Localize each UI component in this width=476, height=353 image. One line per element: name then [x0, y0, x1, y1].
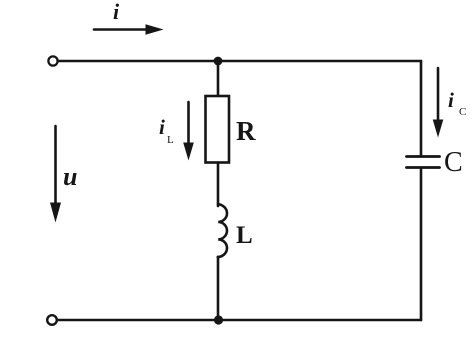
wire right lower — [420, 168, 423, 321]
label iC — [448, 88, 466, 118]
terminal bottom-left — [47, 315, 57, 325]
inductor L — [218, 204, 227, 257]
wire bottom — [58, 319, 421, 322]
svg-text:i: i — [113, 0, 120, 24]
terminal top-left — [48, 56, 57, 65]
svg-text:i: i — [159, 115, 165, 139]
svg-text:C: C — [444, 147, 463, 178]
node top junction — [214, 57, 223, 66]
current arrow iC — [433, 68, 444, 138]
label iL — [159, 115, 174, 146]
current arrow i — [94, 24, 164, 35]
current arrow iL — [183, 102, 194, 161]
svg-text:L: L — [167, 134, 174, 146]
wire inductor bottom lead — [217, 257, 220, 320]
svg-text:R: R — [236, 116, 256, 146]
svg-text:L: L — [236, 222, 253, 249]
wire right upper — [420, 61, 423, 156]
capacitor C — [407, 157, 440, 168]
wire resistor top lead — [217, 61, 220, 96]
wire between R and L — [217, 163, 220, 207]
voltage arrow u — [50, 126, 61, 223]
wire top — [59, 60, 422, 63]
resistor R — [206, 96, 230, 163]
svg-text:u: u — [63, 162, 77, 191]
svg-text:C: C — [459, 106, 466, 118]
node bottom junction — [214, 315, 223, 324]
svg-text:i: i — [448, 88, 454, 112]
